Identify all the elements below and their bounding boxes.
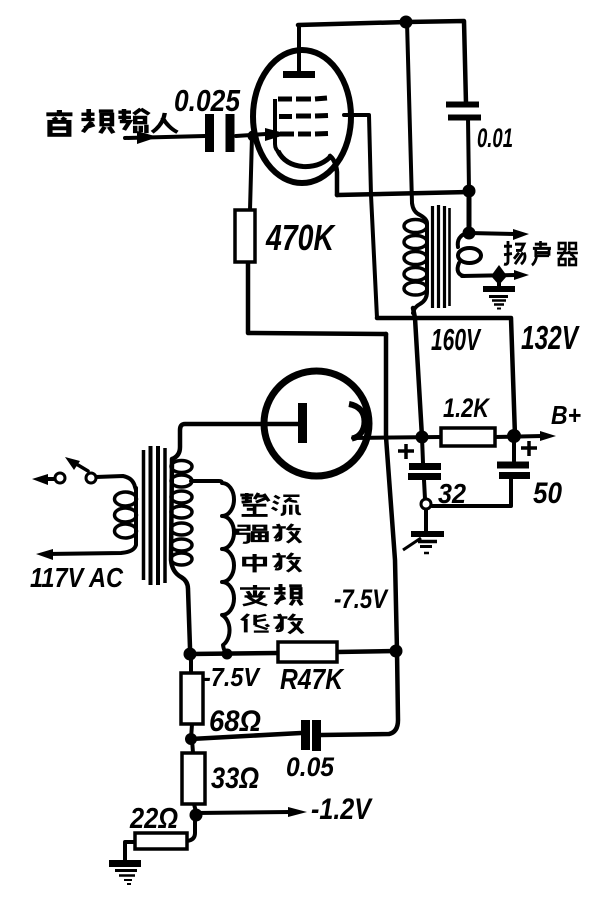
svg-text:32: 32 <box>438 478 466 509</box>
svg-text:0.05: 0.05 <box>286 752 335 782</box>
svg-text:160V: 160V <box>431 322 482 357</box>
svg-text:B+: B+ <box>551 400 581 430</box>
svg-text:-1.2V: -1.2V <box>311 793 373 826</box>
svg-text:132V: 132V <box>521 319 580 356</box>
svg-text:68Ω: 68Ω <box>209 705 261 738</box>
svg-text:0.025: 0.025 <box>174 83 241 118</box>
svg-text:-7.5V: -7.5V <box>203 662 261 692</box>
svg-text:33Ω: 33Ω <box>211 762 259 795</box>
svg-text:470K: 470K <box>265 217 336 258</box>
svg-text:R47K: R47K <box>280 664 345 696</box>
svg-text:50: 50 <box>533 477 562 510</box>
svg-text:0.01: 0.01 <box>477 123 513 153</box>
svg-text:117V AC: 117V AC <box>30 562 124 593</box>
svg-text:-7.5V: -7.5V <box>334 584 389 614</box>
svg-text:1.2K: 1.2K <box>443 393 491 423</box>
svg-text:22Ω: 22Ω <box>129 803 178 835</box>
